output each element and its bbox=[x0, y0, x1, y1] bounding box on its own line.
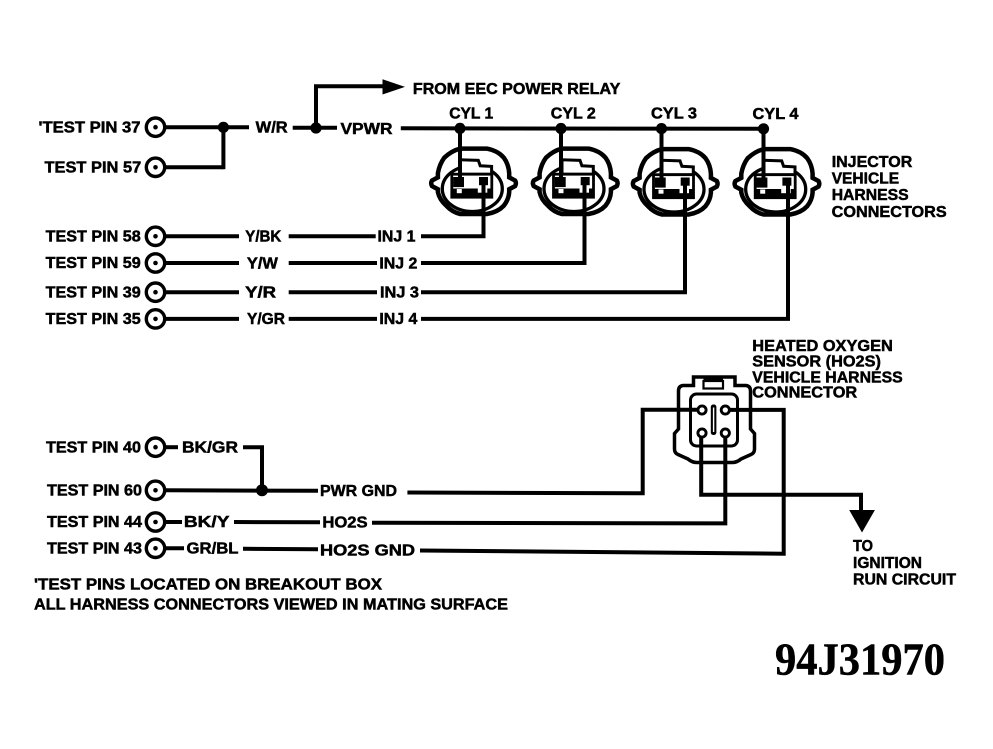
HO2S latch tab dark strip bbox=[704, 377, 724, 383]
wire pin57 riser to pin37 net bbox=[221, 127, 225, 169]
svg-text:HO2S: HO2S bbox=[322, 515, 368, 532]
svg-text:TEST PIN 44: TEST PIN 44 bbox=[47, 514, 142, 531]
wire pin57 horizontal bbox=[165, 165, 224, 169]
wire Y/BK segment 2 bbox=[289, 234, 376, 238]
wire BK/GR down to PWR GND net bbox=[243, 447, 262, 490]
svg-text:INJ 1: INJ 1 bbox=[378, 229, 416, 246]
HO2S center key slot bbox=[711, 405, 717, 436]
test point TEST PIN 58 bbox=[46, 227, 165, 245]
wire pin58 segment 1 bbox=[165, 234, 240, 238]
svg-text:FROM EEC POWER RELAY: FROM EEC POWER RELAY bbox=[413, 81, 621, 98]
svg-text:Y/W: Y/W bbox=[247, 255, 279, 272]
test point TEST PIN 40 bbox=[46, 438, 165, 456]
test point TEST PIN 44 bbox=[47, 513, 165, 531]
HO2S pin 1 (top left) bbox=[698, 406, 706, 414]
junction dot CYL4 bbox=[758, 123, 769, 134]
test point TEST PIN 43 bbox=[47, 539, 165, 557]
svg-text:BK/Y: BK/Y bbox=[184, 514, 230, 531]
svg-text:TEST PIN 59: TEST PIN 59 bbox=[46, 255, 141, 272]
junction dot CYL2 bbox=[555, 123, 566, 134]
svg-text:VPWR: VPWR bbox=[341, 121, 393, 138]
injector connector CYL 1 bbox=[431, 149, 516, 214]
arrowhead to EEC relay bbox=[383, 79, 406, 94]
svg-text:TEST PIN 58: TEST PIN 58 bbox=[46, 229, 141, 246]
test point TEST PIN 57 bbox=[45, 158, 165, 176]
svg-text:W/R: W/R bbox=[256, 120, 288, 137]
svg-text:HO2S GND: HO2S GND bbox=[320, 542, 415, 559]
wire W/R to VPWR junction bbox=[293, 126, 337, 130]
wire INJ 1 to CYL1 connector bbox=[421, 183, 484, 236]
test point TEST PIN 35 bbox=[46, 310, 165, 328]
junction dot CYL3 bbox=[656, 123, 667, 134]
svg-text:VEHICLE: VEHICLE bbox=[832, 170, 900, 187]
wire HO2S to HO2S pin 4 bbox=[372, 437, 725, 524]
svg-text:94J31970: 94J31970 bbox=[775, 634, 945, 685]
wire INJ 2 to CYL2 connector bbox=[421, 183, 585, 263]
wire pin44 stub bbox=[165, 520, 183, 524]
svg-text:CONNECTOR: CONNECTOR bbox=[752, 385, 857, 402]
wire VPWR drop into CYL3 bbox=[660, 129, 664, 187]
svg-text:CYL 3: CYL 3 bbox=[651, 106, 697, 123]
wire pin37 to junction bbox=[165, 125, 250, 129]
HO2S latch tab window bbox=[704, 381, 724, 389]
svg-text:HEATED OXYGEN: HEATED OXYGEN bbox=[752, 338, 893, 355]
HO2S pin 3 (bottom left) bbox=[698, 429, 706, 437]
wire INJ 3 to CYL3 connector bbox=[421, 183, 685, 292]
svg-text:GR/BL: GR/BL bbox=[187, 541, 239, 558]
svg-text:'TEST PINS LOCATED ON BREAKOUT: 'TEST PINS LOCATED ON BREAKOUT BOX bbox=[34, 576, 382, 593]
arrowhead to ignition run circuit bbox=[849, 510, 875, 533]
svg-text:CYL 1: CYL 1 bbox=[449, 105, 493, 122]
svg-text:HARNESS: HARNESS bbox=[832, 187, 909, 204]
wire pin43 stub bbox=[165, 546, 185, 550]
svg-text:Y/BK: Y/BK bbox=[245, 229, 281, 246]
svg-text:IGNITION: IGNITION bbox=[853, 555, 922, 572]
wire GR/BL to HO2S GND label bbox=[243, 547, 318, 551]
wire VPWR bus to CYL4 bbox=[401, 126, 764, 131]
wire Y/W segment 2 bbox=[289, 261, 377, 265]
svg-text:'TEST PIN 37: 'TEST PIN 37 bbox=[39, 119, 141, 136]
svg-text:ALL HARNESS CONNECTORS VIEWED: ALL HARNESS CONNECTORS VIEWED IN MATING … bbox=[34, 597, 508, 614]
wire pin59 segment 1 bbox=[165, 261, 240, 265]
HO2S inner cavity bbox=[691, 394, 738, 446]
svg-text:CYL 4: CYL 4 bbox=[753, 106, 799, 123]
svg-text:TO: TO bbox=[853, 538, 873, 555]
label HEATED OXYGEN SENSOR (HO2S) VEHICLE HARNESS CONNECTOR bbox=[752, 338, 903, 402]
test point TEST PIN 60 bbox=[47, 481, 165, 499]
injector connector CYL 3 bbox=[633, 149, 718, 214]
test point TEST PIN 37 bbox=[39, 118, 165, 136]
svg-text:TEST PIN 60: TEST PIN 60 bbox=[47, 483, 142, 500]
wire INJ 4 to CYL4 connector bbox=[421, 183, 788, 319]
wire pin39 segment 1 bbox=[165, 290, 240, 294]
svg-text:INJ 2: INJ 2 bbox=[379, 255, 417, 272]
wire HO2S pin 3 to ignition run circuit bbox=[701, 437, 861, 512]
wire riser to EEC relay arrow bbox=[316, 86, 383, 128]
svg-text:INJ 4: INJ 4 bbox=[379, 311, 417, 328]
svg-text:TEST PIN 35: TEST PIN 35 bbox=[46, 311, 141, 328]
svg-text:Y/R: Y/R bbox=[245, 285, 277, 302]
svg-text:INJECTOR: INJECTOR bbox=[832, 154, 913, 171]
HO2S pin 4 (bottom right) bbox=[721, 429, 729, 437]
svg-text:PWR GND: PWR GND bbox=[320, 483, 397, 500]
svg-text:TEST PIN 43: TEST PIN 43 bbox=[47, 541, 142, 558]
svg-text:TEST PIN 40: TEST PIN 40 bbox=[46, 439, 141, 456]
svg-text:INJ 3: INJ 3 bbox=[380, 285, 419, 302]
wire pin40 stub bbox=[165, 445, 179, 449]
junction dot B at relay riser bbox=[310, 122, 321, 133]
wire PWR GND to HO2S pin 1 bbox=[407, 410, 698, 494]
HO2S connector outline with latch tab bbox=[675, 377, 755, 463]
wire pin60 to PWR GND label bbox=[165, 488, 319, 493]
wire Y/GR segment 2 bbox=[289, 317, 377, 321]
wire VPWR drop into CYL2 bbox=[559, 129, 563, 187]
junction dot BK/GR into PWR GND bbox=[256, 484, 268, 496]
wire VPWR drop into CYL1 bbox=[458, 129, 462, 187]
svg-text:TEST PIN 57: TEST PIN 57 bbox=[45, 160, 142, 177]
wire HO2S GND to HO2S pin 2 bbox=[420, 410, 784, 554]
injector connector CYL 2 bbox=[533, 149, 618, 214]
HO2S pin 2 (top right) bbox=[721, 406, 729, 414]
wire BK/Y to HO2S label bbox=[234, 520, 320, 524]
junction dot CYL1 bbox=[454, 123, 465, 134]
label INJECTOR VEHICLE HARNESS CONNECTORS bbox=[832, 154, 947, 221]
svg-text:Y/GR: Y/GR bbox=[247, 311, 285, 328]
svg-text:BK/GR: BK/GR bbox=[182, 439, 238, 456]
svg-text:CYL 2: CYL 2 bbox=[551, 105, 596, 122]
label TO IGNITION RUN CIRCUIT bbox=[853, 538, 956, 589]
test point TEST PIN 39 bbox=[46, 283, 165, 301]
junction dot A bbox=[218, 122, 229, 133]
test point TEST PIN 59 bbox=[46, 254, 165, 272]
svg-text:RUN CIRCUIT: RUN CIRCUIT bbox=[853, 572, 956, 589]
svg-text:CONNECTORS: CONNECTORS bbox=[832, 204, 947, 221]
wire pin35 segment 1 bbox=[165, 317, 240, 321]
svg-text:SENSOR (HO2S): SENSOR (HO2S) bbox=[752, 354, 881, 371]
wire Y/R segment 2 bbox=[289, 290, 377, 294]
wire VPWR drop into CYL4 bbox=[762, 129, 766, 187]
svg-text:TEST PIN 39: TEST PIN 39 bbox=[46, 284, 141, 301]
injector connector CYL 4 bbox=[735, 149, 820, 214]
